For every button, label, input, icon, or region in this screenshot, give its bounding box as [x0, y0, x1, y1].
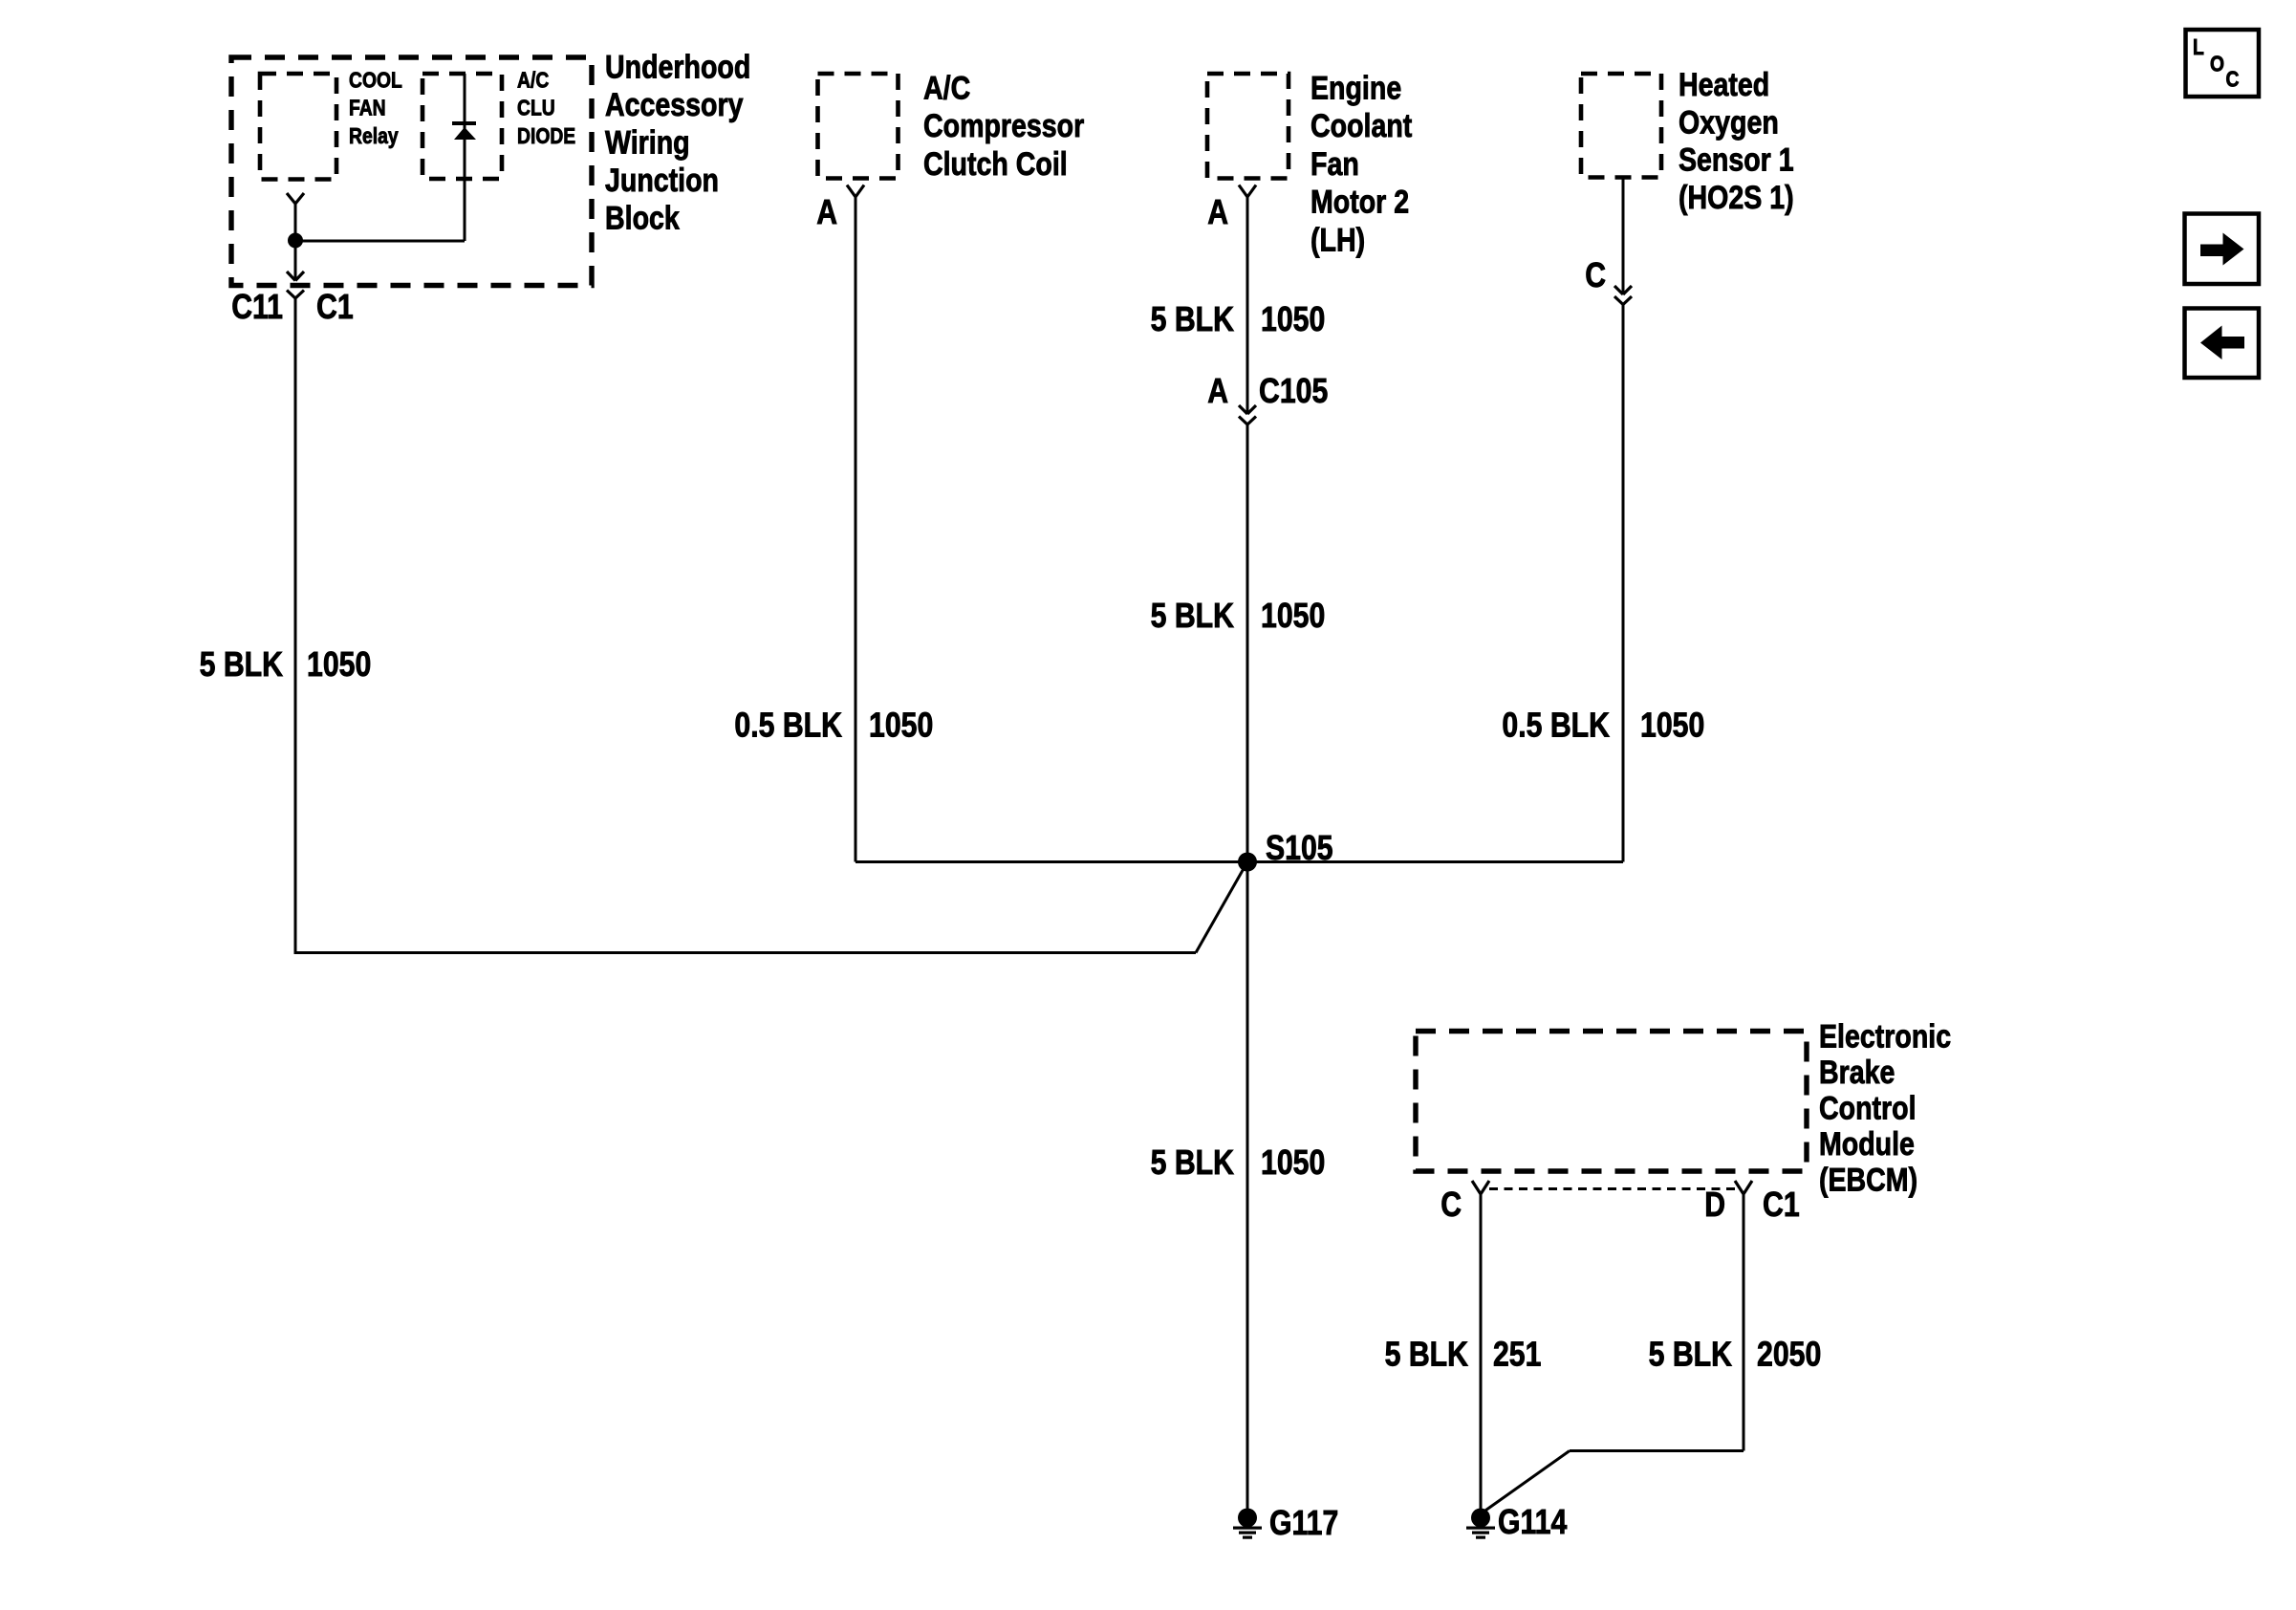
svg-text:Module: Module — [1819, 1126, 1915, 1163]
svg-text:1050: 1050 — [307, 644, 371, 684]
wire: C105 to S105 5 BLK 1050 — [1246, 424, 1249, 862]
svg-text:FAN: FAN — [349, 96, 386, 120]
svg-text:1050: 1050 — [1261, 299, 1325, 338]
EBCM connector C1 dashed tie line — [1489, 1187, 1735, 1190]
svg-text:Accessory: Accessory — [605, 87, 744, 123]
arrow into C105 — [1239, 405, 1256, 414]
svg-text:C: C — [1585, 255, 1606, 294]
left arrow icon — [2185, 309, 2260, 379]
relay K1 (COOL FAN Relay) dashed box — [260, 74, 336, 180]
svg-text:(HO2S 1): (HO2S 1) — [1679, 180, 1794, 216]
ground G117 symbol — [1238, 1509, 1257, 1528]
svg-text:Control: Control — [1819, 1091, 1917, 1127]
arrow into C11 at block bottom — [287, 272, 304, 281]
svg-text:G114: G114 — [1498, 1502, 1567, 1541]
splice S105 dot — [1238, 853, 1257, 872]
svg-text:Oxygen: Oxygen — [1679, 104, 1779, 141]
svg-text:Motor 2: Motor 2 — [1310, 185, 1409, 221]
A/C compressor clutch coil label — [923, 71, 1084, 183]
svg-text:A: A — [816, 192, 837, 231]
svg-text:5 BLK: 5 BLK — [1151, 299, 1234, 338]
wire: horizontal dot to diode branch — [295, 240, 465, 243]
svg-text:5 BLK: 5 BLK — [1151, 1142, 1234, 1182]
wire: S105 horizontal bus — [856, 860, 1623, 863]
wire: HO2S ground branch 0.5 BLK 1050 — [1622, 305, 1625, 862]
svg-text:5 BLK: 5 BLK — [1151, 596, 1234, 635]
svg-text:C1: C1 — [1763, 1185, 1800, 1224]
connector fork pin D of EBCM — [1735, 1181, 1752, 1194]
wire: HO2S to pin C connector — [1622, 178, 1625, 294]
ground G114 symbol — [1471, 1509, 1490, 1528]
svg-text:O: O — [2210, 52, 2224, 76]
connector fork at relay pin — [287, 193, 304, 204]
svg-text:Fan: Fan — [1310, 146, 1359, 183]
right arrow icon — [2185, 214, 2260, 285]
wire: left vertical 5 BLK 1050 — [294, 298, 297, 954]
connector fork below HO2S pin C — [1614, 296, 1632, 305]
svg-text:1050: 1050 — [1640, 706, 1704, 745]
heated oxygen sensor HO2S 1 dashed box — [1581, 74, 1661, 178]
svg-text:Engine: Engine — [1310, 71, 1401, 107]
wire: diagonal up to S105 — [1196, 862, 1247, 953]
svg-text:(EBCM): (EBCM) — [1819, 1163, 1917, 1199]
svg-text:0.5 BLK: 0.5 BLK — [1502, 706, 1610, 745]
svg-text:5 BLK: 5 BLK — [200, 644, 283, 684]
diode D1 (A/C CLU DIODE) dashed box — [422, 74, 502, 179]
svg-text:Wiring: Wiring — [605, 125, 690, 162]
wire: bottom horizontal of left branch — [295, 951, 1196, 954]
svg-text:251: 251 — [1493, 1335, 1541, 1374]
svg-text:5 BLK: 5 BLK — [1649, 1335, 1732, 1374]
svg-text:(LH): (LH) — [1310, 222, 1365, 258]
svg-text:Junction: Junction — [605, 163, 719, 199]
svg-text:A: A — [1207, 192, 1228, 231]
svg-text:1050: 1050 — [869, 706, 933, 745]
svg-text:CLU: CLU — [517, 96, 555, 120]
svg-text:Underhood: Underhood — [605, 50, 750, 86]
wire: relay pin to junction dot — [294, 204, 297, 281]
svg-text:1050: 1050 — [1261, 596, 1325, 635]
svg-text:A: A — [1207, 371, 1228, 410]
connector fork C11 below block — [287, 291, 304, 299]
svg-text:D: D — [1704, 1185, 1725, 1224]
wire: S105 down to G117 5 BLK 1050 — [1246, 862, 1249, 1510]
wire: diagonal of 2050 branch into G114 — [1483, 1451, 1570, 1513]
wire: horizontal of 2050 branch — [1570, 1449, 1744, 1452]
svg-text:L: L — [2193, 34, 2204, 59]
svg-text:COOL: COOL — [349, 68, 402, 93]
engine coolant fan motor 2 dashed box — [1207, 74, 1289, 179]
svg-text:Sensor 1: Sensor 1 — [1679, 142, 1794, 179]
svg-text:A/C: A/C — [923, 71, 970, 107]
svg-text:C: C — [2226, 67, 2240, 92]
heated oxygen sensor label — [1679, 67, 1794, 216]
EBCM label — [1819, 1019, 1951, 1199]
svg-text:C105: C105 — [1259, 371, 1328, 410]
EBCM dashed box (Electronic Brake Control Module) — [1416, 1032, 1807, 1172]
svg-text:A/C: A/C — [517, 68, 549, 93]
svg-text:Compressor: Compressor — [923, 108, 1084, 144]
svg-text:0.5 BLK: 0.5 BLK — [734, 706, 842, 745]
svg-text:C1: C1 — [316, 287, 354, 326]
diode D1 label — [517, 68, 575, 148]
node: junction dot inside block — [288, 233, 303, 249]
wire: clutch coil ground 0.5 BLK 1050 — [855, 197, 857, 862]
svg-text:1050: 1050 — [1261, 1142, 1325, 1182]
svg-text:G117: G117 — [1269, 1503, 1338, 1542]
engine coolant fan motor 2 label — [1310, 71, 1412, 259]
junction block J1 (Underhood Accessory Wiring Junction Block) dashed outline — [231, 57, 592, 286]
svg-text:Brake: Brake — [1819, 1055, 1895, 1091]
svg-text:S105: S105 — [1266, 828, 1333, 867]
connector fork pin C of EBCM — [1472, 1181, 1489, 1194]
svg-text:C11: C11 — [231, 287, 283, 326]
relay K1 label — [349, 68, 402, 148]
svg-text:Block: Block — [605, 201, 680, 237]
svg-text:Heated: Heated — [1679, 67, 1769, 103]
connector fork pin A of fan motor — [1239, 185, 1256, 198]
svg-text:DIODE: DIODE — [517, 123, 575, 148]
svg-text:Electronic: Electronic — [1819, 1019, 1951, 1055]
svg-text:Clutch Coil: Clutch Coil — [923, 146, 1068, 183]
svg-text:C: C — [1440, 1185, 1462, 1224]
svg-text:5 BLK: 5 BLK — [1385, 1335, 1468, 1374]
wire: EBCM pin C to G114 5 BLK 251 — [1480, 1194, 1483, 1509]
connector fork pin A of clutch coil — [847, 185, 864, 198]
wire: fan motor to C105 — [1246, 197, 1249, 414]
wire: EBCM pin D down 5 BLK 2050 — [1743, 1194, 1745, 1451]
LOC icon box — [2186, 30, 2260, 97]
arrow at HO2S pin C — [1614, 286, 1632, 294]
wire: diode branch vertical — [464, 74, 466, 241]
svg-text:Relay: Relay — [349, 123, 399, 148]
diode D1 symbol (cathode bar + triangle) — [452, 121, 476, 140]
svg-text:Coolant: Coolant — [1310, 108, 1412, 144]
junction block label — [605, 50, 750, 237]
A/C compressor clutch coil dashed box — [818, 74, 899, 179]
connector fork C105 — [1239, 417, 1256, 425]
svg-text:2050: 2050 — [1757, 1335, 1821, 1374]
